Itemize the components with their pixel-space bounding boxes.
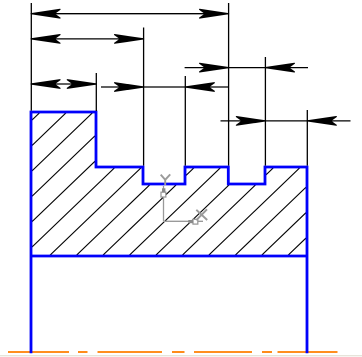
- X axis line: [164, 220, 204, 222]
- Y axis handle square: [161, 192, 166, 197]
- dimension line 4 (block width): [31, 83, 96, 85]
- X axis arrow mark: [188, 220, 193, 223]
- arrow dim2 left: [31, 35, 60, 44]
- dimension line 1 (overall to groove 2): [31, 13, 229, 15]
- arrow dim6 right (outside): [307, 117, 336, 126]
- arrow dim5 right (outside): [185, 83, 214, 92]
- arrow dim1 right: [200, 9, 229, 18]
- dimension line 5 (groove 1 width): [101, 86, 229, 88]
- arrow dim4 left: [31, 80, 60, 89]
- local coordinate system widget (gray): [161, 186, 203, 224]
- arrow dim3 left (outside): [200, 63, 229, 72]
- extension line at groove 2 left wall: [228, 3, 230, 166]
- dimension line 3 (groove 2 width): [185, 67, 308, 69]
- dimension line 6 (groove 2 to right edge): [221, 120, 351, 122]
- Y axis line: [163, 186, 165, 221]
- arrow dim5 left (outside): [115, 83, 144, 92]
- faint window border at bottom: [0, 355, 362, 357]
- part outline (blue profile with two grooves): [31, 112, 307, 353]
- section bottom edge: [31, 255, 307, 258]
- arrow dim3 right (outside): [265, 63, 294, 72]
- dimension line 2 (left edge to groove 1): [31, 38, 144, 40]
- X axis handle square: [193, 219, 198, 224]
- X axis label glyph: [196, 210, 207, 220]
- arrow dim4 right: [67, 80, 96, 89]
- extension line at part left edge: [30, 3, 32, 111]
- Y axis arrow mark: [162, 188, 165, 192]
- arrow dim6 left (outside): [236, 117, 265, 126]
- extension line at groove 1 right wall: [184, 76, 186, 166]
- centerline (orange dash-dot axis of revolution): [8, 351, 338, 353]
- extension line at groove 2 right wall: [264, 57, 266, 166]
- extension line at block right wall: [95, 73, 97, 111]
- arrow dim2 right: [115, 35, 144, 44]
- section hatch lines (45-degree): [0, 100, 362, 272]
- extension line at part right edge: [306, 110, 308, 166]
- arrow dim1 left: [31, 9, 60, 18]
- Y axis label glyph: [161, 175, 166, 180]
- extension line at groove 1 left wall: [143, 28, 145, 166]
